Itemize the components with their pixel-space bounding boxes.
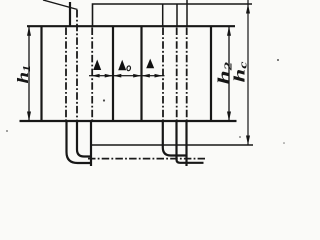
dimension hc line	[247, 0, 248, 145]
arrow delta-left right	[105, 74, 113, 78]
wire vertical stub top-left	[69, 2, 71, 26]
right coil rectangle right edge	[210, 26, 212, 121]
top stub right leg a	[162, 4, 164, 26]
dash-dot centerlines	[66, 10, 205, 159]
paper speck a	[103, 99, 105, 101]
arrow delta0 right	[133, 74, 141, 78]
label delta right	[146, 59, 154, 69]
lower half mid leg with bend	[177, 121, 204, 163]
centerline right rect b	[176, 28, 178, 121]
lower half inner-left leg with bend	[77, 121, 91, 157]
left coil rectangle left edge	[40, 26, 42, 121]
centerline left rect c	[91, 28, 93, 121]
arrow delta0 left	[113, 74, 121, 78]
label delta left	[93, 60, 101, 71]
coil top edge	[27, 25, 235, 27]
centerline right rect a	[162, 28, 164, 121]
arrow hc up	[246, 4, 250, 14]
lower half inner-mid leg with bend	[163, 121, 187, 156]
centerline right rect c	[186, 28, 188, 121]
dimension h1 line	[28, 27, 29, 121]
svg-text:h1: h1	[15, 65, 33, 84]
top stub right leg c	[186, 0, 188, 26]
lower half cut face right	[185, 121, 187, 166]
lower half window bottom line	[91, 144, 253, 146]
arrow delta-left left	[91, 74, 99, 78]
centerline left rect b	[76, 10, 78, 120]
coil bottom edge	[20, 120, 237, 122]
centerline left rect a	[65, 28, 67, 121]
gap dimension line	[89, 75, 165, 76]
paper speck c	[239, 136, 241, 138]
diagonal break line top-left	[43, 0, 78, 10]
paper speck d	[283, 142, 285, 144]
lower half cut face left	[90, 121, 92, 166]
centerline bottom yoke	[88, 158, 205, 160]
right coil rectangle left edge	[140, 26, 142, 121]
arrow delta-right left	[142, 74, 150, 78]
label delta0	[118, 60, 126, 71]
arrow hc down	[246, 136, 250, 146]
paper speck e	[6, 130, 8, 132]
paper speck b	[277, 59, 279, 61]
left coil rectangle right edge	[112, 26, 114, 121]
arrow h1 up	[27, 26, 31, 36]
arrow h1 down	[27, 112, 31, 122]
dimension h2 line	[228, 27, 229, 121]
lower half outer-left leg with bend	[67, 121, 91, 163]
arrow h2 up	[227, 26, 231, 36]
top stub right leg b	[176, 4, 178, 26]
displaced core top outline	[93, 4, 253, 26]
arrow h2 down	[227, 112, 231, 122]
arrow delta-right right	[155, 74, 163, 78]
dimension lines	[27, 0, 250, 145]
